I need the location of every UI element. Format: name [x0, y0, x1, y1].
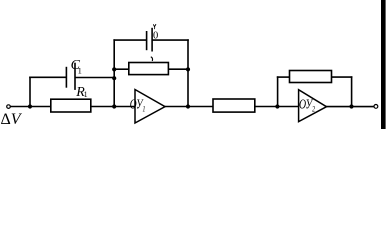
svg-text:1: 1: [78, 66, 82, 76]
svg-text:ΔV: ΔV: [1, 111, 23, 128]
svg-text:1: 1: [84, 90, 88, 99]
svg-text:0: 0: [153, 30, 158, 41]
